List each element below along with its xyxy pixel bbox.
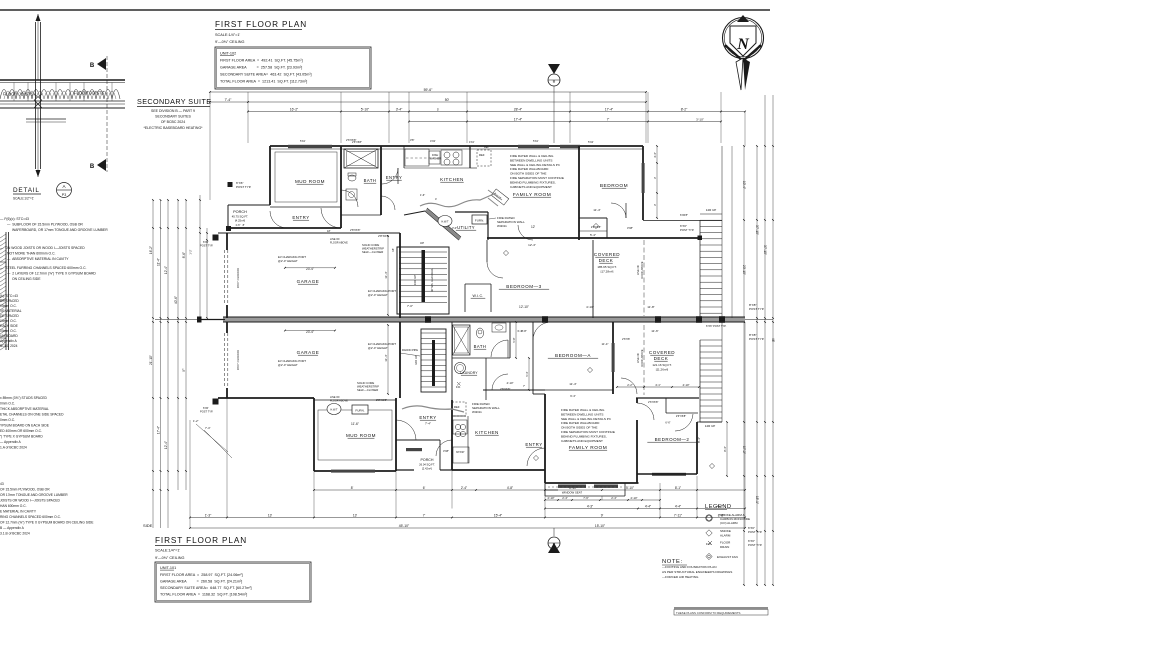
upper garage door dashed (224, 250, 226, 305)
svg-text:6'-6": 6'-6" (665, 421, 670, 425)
svg-text:POST TYP.: POST TYP. (236, 185, 251, 189)
svg-text:16'X7' OH DOOR: 16'X7' OH DOOR (236, 350, 240, 370)
svg-text:5'-4": 5'-4" (525, 371, 529, 376)
svg-text:3'-8": 3'-8" (521, 329, 527, 333)
svg-text:3'X8": 3'X8" (443, 449, 449, 453)
svg-text:JOISTS OR WOOD I—JOISTS SPACED: JOISTS OR WOOD I—JOISTS SPACED (0, 499, 60, 503)
svg-text:@2'-0" HEIGHT: @2'-0" HEIGHT (368, 293, 388, 297)
bedroom2 interior dim chain (726, 422, 728, 476)
svg-text:ED 400mm OR 600mm O.C.: ED 400mm OR 600mm O.C. (0, 429, 42, 433)
svg-text:") TYPE X GYPSUM BOARD: ") TYPE X GYPSUM BOARD (0, 435, 43, 439)
svg-text:3'-4": 3'-4" (396, 107, 403, 111)
svg-text:GARAGE: GARAGE (297, 350, 320, 355)
svg-text:7'-4": 7'-4" (425, 422, 431, 426)
svg-text:6"X6" POST TYP.: 6"X6" POST TYP. (706, 324, 727, 328)
svg-text:FLOOR: FLOOR (720, 541, 731, 545)
svg-text:F.D.: F.D. (456, 385, 461, 389)
svg-text:(CO) ALARM: (CO) ALARM (720, 521, 738, 525)
upper kitchen range circles (444, 152, 450, 158)
svg-text:LAUNDRY: LAUNDRY (460, 371, 478, 375)
svg-text:BEDROOM—3: BEDROOM—3 (506, 284, 541, 289)
upper central stair box (397, 247, 449, 314)
upper unit mudroom left wall (269, 146, 271, 205)
svg-text:PORCH: PORCH (233, 210, 247, 214)
svg-text:6'-4": 6'-4" (570, 394, 576, 398)
svg-text:11'-4": 11'-4" (384, 354, 388, 361)
detail A floor joist hatched band (0, 79, 125, 81)
svg-text:W4D11: W4D11 (497, 224, 507, 228)
svg-text:3'X8": 3'X8" (627, 226, 633, 230)
bottom dimension row A (314, 489, 745, 491)
svg-text:5'X4': 5'X4' (588, 140, 594, 144)
svg-text:FURN.: FURN. (355, 409, 364, 413)
svg-text:UTILITY: UTILITY (457, 225, 475, 230)
svg-text:POST TYP.: POST TYP. (200, 410, 213, 414)
lower family room window seat (545, 489, 558, 491)
svg-text:40'-6": 40'-6" (174, 296, 178, 304)
svg-text:WINDOW SEAT: WINDOW SEAT (562, 491, 582, 495)
svg-text:4'-4": 4'-4" (675, 504, 681, 508)
upper top wall windows (288, 145, 332, 148)
svg-text:SEE WALL & CEILING DETAILS P3: SEE WALL & CEILING DETAILS P3 (561, 417, 611, 421)
svg-text:ETAL CHANNELS ON ONE SIDE SPAC: ETAL CHANNELS ON ONE SIDE SPACED (0, 413, 64, 417)
upper garage outline (218, 232, 400, 234)
svg-text:1.A of BCBC 2024: 1.A of BCBC 2024 (0, 446, 27, 450)
svg-text:15'-10": 15'-10" (595, 524, 606, 528)
svg-text:6'X6': 6'X6' (203, 240, 209, 244)
svg-text:3.1.B of BCBC 2024: 3.1.B of BCBC 2024 (0, 532, 30, 536)
svg-text:15'-4": 15'-4" (494, 513, 503, 517)
svg-text:UNIT-101: UNIT-101 (160, 566, 176, 570)
lower deck bottom dim line (617, 386, 699, 388)
svg-text:8'-4": 8'-4" (697, 437, 701, 443)
svg-text:36" MIN. GUARDRAIL: 36" MIN. GUARDRAIL (431, 267, 434, 292)
upper central stair treads (399, 251, 447, 253)
svg-text:4'-4": 4'-4" (653, 152, 657, 158)
svg-text:COVERED: COVERED (649, 350, 675, 355)
lower garage interior dim (387, 325, 389, 394)
svg-text:9': 9' (601, 513, 604, 517)
svg-text:SECONDARY SUITES: SECONDARY SUITES (155, 115, 191, 119)
upper stairs right (700, 213, 722, 215)
svg-text:KITCHEN: KITCHEN (475, 430, 499, 435)
lower bedroomA walls (532, 322, 534, 394)
upper kitchen-family wall (469, 146, 471, 168)
svg-text:FLOOR JOISTS: FLOOR JOISTS (74, 91, 104, 96)
upper utility diagonal walls (425, 211, 459, 240)
svg-text:0mm O.C.: 0mm O.C. (0, 418, 15, 422)
svg-text:9'": 9'" (182, 368, 186, 372)
lower central stairs (421, 329, 446, 392)
svg-text:(k): STC=43: (k): STC=43 (0, 294, 18, 298)
svg-text:ROOF ABOVE: ROOF ABOVE (640, 349, 644, 366)
svg-text:BETWEEN DWELLING UNITS: BETWEEN DWELLING UNITS (510, 158, 552, 162)
unit-101 area box (155, 562, 311, 602)
lower bedroomA window (612, 343, 615, 372)
upper bath walls (380, 146, 382, 215)
svg-text:UP: UP (420, 241, 424, 245)
svg-text:x 89mm (3⅝") STUDS SPACED: x 89mm (3⅝") STUDS SPACED (0, 396, 48, 400)
svg-text:FURN.: FURN. (475, 219, 484, 223)
svg-text:TOTAL FLOOR AREA = 1213.41: TOTAL FLOOR AREA = 1213.41 SQ.FT. [112.7… (220, 80, 307, 84)
svg-text:DS SPACED: DS SPACED (0, 299, 19, 303)
svg-text:SECONDARY SUITE: SECONDARY SUITE (137, 97, 211, 106)
svg-text:B — Appendix A: B — Appendix A (0, 526, 25, 530)
svg-text:7': 7' (523, 384, 526, 388)
lower bath fixtures (476, 328, 483, 338)
upper furn room walls (455, 211, 488, 213)
upper mudroom walls (340, 146, 342, 228)
svg-text:@2'-0" HEIGHT: @2'-0" HEIGHT (278, 363, 298, 367)
detail A wall x-brace marks (34, 100, 42, 108)
svg-text:1'-6" 8': 1'-6" 8' (235, 223, 245, 227)
svg-text:[17.28m²]: [17.28m²] (601, 270, 614, 274)
approval stamp box (674, 607, 768, 609)
svg-text:16R UP: 16R UP (413, 275, 417, 286)
upper heat run box (491, 189, 509, 205)
svg-text:FLOOR JOISTS: FLOOR JOISTS (3, 92, 33, 97)
svg-text:MUD ROOM: MUD ROOM (295, 179, 325, 184)
svg-text:1'-3": 1'-3" (205, 513, 212, 517)
section marker bottom (553, 528, 555, 536)
detail A section dashed line (106, 56, 108, 172)
svg-text:7'-11": 7'-11" (674, 513, 683, 517)
svg-text:14R UP: 14R UP (705, 424, 716, 428)
lower family room walls (544, 394, 546, 483)
svg-text:5': 5' (437, 107, 440, 111)
svg-text:1'-2": 1'-2" (189, 249, 193, 254)
svg-text:ENTRY: ENTRY (386, 175, 403, 180)
lower bedroomA door arc (533, 322, 551, 340)
svg-text:11'-6": 11'-6" (651, 329, 658, 333)
svg-text:14R UP: 14R UP (706, 208, 717, 212)
lower furnace (352, 405, 368, 414)
svg-text:— SUBFLOOR OF 15.5mm PLYWOOD,: — SUBFLOOR OF 15.5mm PLYWOOD, OSB OR (7, 223, 83, 227)
bottom dimension row E (190, 527, 745, 529)
svg-text:26.04 SQ.FT.: 26.04 SQ.FT. (419, 463, 435, 467)
svg-text:BCBC 2024: BCBC 2024 (0, 344, 18, 348)
svg-text:4'-1": 4'-1" (655, 383, 661, 387)
lower bath walls (451, 322, 453, 400)
legend smoke alarm co symbol (706, 515, 712, 521)
svg-text:BETWEEN DWELLING UNITS: BETWEEN DWELLING UNITS (561, 412, 603, 416)
svg-text:TOTAL FLOOR AREA = 1168.32: TOTAL FLOOR AREA = 1168.32 SQ.FT. [108.5… (160, 593, 247, 597)
svg-text:ENTRY: ENTRY (419, 415, 436, 420)
svg-text:5'-10": 5'-10" (361, 107, 370, 111)
svg-text:W.I.C.: W.I.C. (473, 294, 484, 298)
svg-text:11'-4": 11'-4" (157, 258, 161, 266)
svg-text:GARAGE: GARAGE (297, 279, 320, 284)
lower closet door arc (675, 414, 693, 431)
svg-text:185.95 SQ.FT.: 185.95 SQ.FT. (597, 265, 617, 269)
svg-text:SIDE: SIDE (143, 523, 153, 528)
svg-text:2'8"X6'8": 2'8"X6'8" (378, 234, 389, 238)
lower bedroom2 closet (665, 398, 667, 413)
svg-text:THICK ABSORPTIVE MATERIAL: THICK ABSORPTIVE MATERIAL (0, 407, 49, 411)
bottom dimension row D (190, 517, 745, 519)
svg-text:21'-10": 21'-10" (149, 355, 153, 365)
svg-text:17'-2": 17'-2" (742, 446, 746, 454)
lower roof line dashes (643, 325, 645, 395)
top dimension row 2 (210, 101, 646, 103)
party wall post blocks (425, 316, 431, 323)
upper bath fixtures toilet (348, 175, 356, 181)
svg-text:GARAGE AREA = 260.58: GARAGE AREA = 260.58 SQ.FT. [24.21m²] (160, 580, 242, 584)
svg-text:16R UP: 16R UP (414, 355, 418, 365)
svg-text:YPSUM BOARD ON EACH SIDE: YPSUM BOARD ON EACH SIDE (0, 424, 50, 428)
svg-text:8'-6": 8'-6" (182, 252, 186, 258)
svg-text:VE MATERIAL: VE MATERIAL (0, 309, 22, 313)
sheet top border line (0, 9, 770, 11)
svg-text:OF BCBC 2024: OF BCBC 2024 (161, 120, 185, 124)
svg-text:16'-2": 16'-2" (149, 246, 153, 254)
lower mudroom walls (313, 398, 315, 471)
svg-text:00mm O.C.: 00mm O.C. (0, 319, 17, 323)
upper covered deck walls (592, 240, 594, 318)
svg-text:RADON PIPE: RADON PIPE (402, 348, 418, 352)
svg-text:THESE PLANS CONFORM TO REQUIRE: THESE PLANS CONFORM TO REQUIREMENTS (676, 611, 741, 615)
svg-text:8'-2": 8'-2" (681, 107, 688, 111)
upper entry-kitchen wall (403, 146, 405, 168)
lower hall door arc (492, 374, 508, 390)
svg-text:3'-10": 3'-10" (696, 117, 704, 121)
svg-text:WASHER: WASHER (430, 157, 441, 161)
svg-text:6'X6'8": 6'X6'8" (680, 213, 688, 217)
detail A bubble (57, 183, 72, 198)
bottom extension lines (226, 398, 228, 518)
upper porch post (226, 226, 231, 231)
svg-text:POST TYP.: POST TYP. (200, 244, 213, 248)
svg-text:59'-6": 59'-6" (424, 88, 433, 92)
svg-text:DRAIN: DRAIN (720, 545, 729, 549)
svg-text:17'-4": 17'-4" (605, 107, 614, 111)
lower bedroom2 window (652, 473, 686, 476)
svg-text:12'-4": 12'-4" (164, 266, 168, 274)
top extension lines (247, 92, 249, 143)
svg-text:DECK: DECK (654, 356, 669, 361)
svg-text:[11.26m²]: [11.26m²] (656, 368, 669, 372)
svg-text:2'6"X6'8": 2'6"X6'8" (346, 138, 356, 142)
svg-text:2'6"X6'8": 2'6"X6'8" (676, 414, 686, 418)
upper bath vanity (346, 189, 357, 200)
svg-text:17'-4": 17'-4" (157, 426, 161, 434)
svg-text:A: A (62, 184, 66, 189)
svg-text:SCALE:1/4"=1': SCALE:1/4"=1' (155, 549, 180, 553)
svg-text:OF 12.7mm (⅝") TYPE X GYPSUM B: OF 12.7mm (⅝") TYPE X GYPSUM BOARD ON CE… (0, 521, 94, 525)
upper heat duct wavy line (420, 193, 496, 207)
svg-text:FIRST FLOOR PLAN: FIRST FLOOR PLAN (155, 536, 247, 545)
upper garage interior dim (387, 236, 389, 315)
detail A furring channel line (26, 118, 66, 120)
svg-text:Appendix A: Appendix A (0, 339, 17, 343)
svg-text:SMOKE: SMOKE (720, 529, 731, 533)
svg-text:2'-10": 2'-10" (630, 496, 637, 500)
svg-text:SEE DIVISION B — PART 9: SEE DIVISION B — PART 9 (151, 109, 195, 113)
svg-text:FIRE SEPARATION MUST CONTINUE: FIRE SEPARATION MUST CONTINUE (510, 176, 564, 180)
svg-text:NOT MORE THAN 600mm O.C.: NOT MORE THAN 600mm O.C. (7, 252, 56, 256)
svg-text:REF: REF (479, 153, 485, 157)
upper stair stringer (422, 250, 426, 302)
svg-text:MUD ROOM: MUD ROOM (346, 433, 376, 438)
bedroom interior dim chain (656, 146, 658, 218)
svg-text:13': 13' (268, 513, 273, 517)
svg-text:@2'-0" HEIGHT: @2'-0" HEIGHT (278, 259, 298, 263)
svg-text:17'-4": 17'-4" (514, 117, 523, 121)
svg-text:CABINETS AND EQUIPMENT: CABINETS AND EQUIPMENT (561, 439, 603, 443)
svg-text:28'-4": 28'-4" (514, 107, 523, 111)
svg-text:[4.25m²]: [4.25m²] (235, 219, 245, 223)
svg-text:FIRE SEPARATION MUST CONTINUE: FIRE SEPARATION MUST CONTINUE (561, 430, 615, 434)
svg-text:— Appendix A: — Appendix A (0, 440, 22, 444)
svg-text:H.W.T: H.W.T (330, 408, 338, 412)
svg-text:11'-4": 11'-4" (593, 208, 600, 212)
left edge wall section ticks (0, 261, 6, 263)
svg-text:16'X7' OH DOOR: 16'X7' OH DOOR (236, 268, 240, 288)
lower entry door arc (396, 420, 416, 440)
svg-text:1'-6": 1'-6" (420, 193, 425, 197)
svg-text:4'-10": 4'-10" (682, 383, 689, 387)
upper bedroom window east (642, 163, 645, 193)
svg-text:8'-4": 8'-4" (723, 446, 727, 452)
svg-text:5'X4': 5'X4' (533, 140, 539, 143)
svg-text:15'-1": 15'-1" (755, 496, 759, 504)
svg-text:FIRE RATED WALLBOARD: FIRE RATED WALLBOARD (561, 421, 600, 425)
bottom dimension row C (545, 508, 745, 510)
upper kitchen counter (404, 167, 470, 169)
svg-text:FIRST FLOOR AREA = 492.41 S: FIRST FLOOR AREA = 492.41 SQ.FT. [45.75m… (220, 59, 303, 63)
svg-text:DE SPACED: DE SPACED (0, 314, 19, 318)
svg-text:13': 13' (353, 513, 358, 517)
svg-text:SELF—CLOSER: SELF—CLOSER (357, 388, 378, 392)
svg-text:BEDROOM—2: BEDROOM—2 (655, 437, 690, 442)
lower right stairs (700, 339, 722, 341)
section marker top (553, 82, 555, 143)
upper furnace (472, 215, 487, 224)
lower hwt (327, 404, 341, 415)
svg-text:E MATERIAL IN CAVITY: E MATERIAL IN CAVITY (0, 510, 37, 514)
svg-text:EXHAUST FAN: EXHAUST FAN (717, 555, 738, 559)
svg-text:121.16 SQ.FT.: 121.16 SQ.FT. (652, 363, 672, 367)
svg-text:7': 7' (423, 513, 426, 517)
svg-text:P3: P3 (62, 193, 66, 197)
svg-text:RING CHANNELS SPACED 600mm O.C: RING CHANNELS SPACED 600mm O.C. (0, 515, 61, 519)
svg-text:0mm O.C.: 0mm O.C. (0, 402, 15, 406)
upper family-deck south wall (487, 237, 700, 239)
svg-text:9'—0⅜" CEILING: 9'—0⅜" CEILING (155, 556, 185, 560)
svg-text:— 2 LAYERS OF 12.7mm (⅝") TYP: — 2 LAYERS OF 12.7mm (⅝") TYPE X GYPSUM … (7, 272, 96, 276)
svg-text:37'-10": 37'-10" (755, 225, 759, 235)
right dim ticks (743, 145, 745, 147)
svg-text:ENTRY: ENTRY (292, 215, 309, 220)
top dimension row 4 (409, 121, 721, 123)
legend exhaust fan symbol (706, 553, 712, 559)
svg-text:30"X30": 30"X30" (456, 451, 465, 454)
upper hwt (438, 216, 452, 227)
upper wic walls (464, 284, 466, 312)
svg-text:DETAIL: DETAIL (13, 187, 40, 194)
lower garage outline (226, 322, 228, 333)
svg-text:7'-0": 7'-0" (407, 304, 413, 308)
svg-text:H.W.T: H.W.T (441, 220, 449, 224)
svg-text:LINE OF: LINE OF (636, 265, 640, 276)
svg-text:10'-4": 10'-4" (742, 181, 746, 189)
svg-text:SECONDARY SUITE AREA= 648.77: SECONDARY SUITE AREA= 648.77 SQ.FT. [60.… (160, 586, 252, 590)
svg-text:1'-2": 1'-2" (193, 419, 199, 423)
lower kitchen counter (467, 416, 469, 463)
svg-text:WAFERBOARD, OR 17mm TONGUE AND: WAFERBOARD, OR 17mm TONGUE AND GROOVE LU… (12, 228, 108, 232)
svg-text:FIRST FLOOR AREA = 258.97 S: FIRST FLOOR AREA = 258.97 SQ.FT. [24.06m… (160, 573, 243, 577)
upper bedroom walls (578, 146, 580, 240)
upper deck edge line (643, 220, 722, 222)
lower garage door dashed (224, 333, 226, 388)
left edge wall section hatch band (5, 232, 7, 350)
svg-text:— STEEL FURRING CHANNELS SPAC: — STEEL FURRING CHANNELS SPACED 600mm O.… (0, 266, 87, 270)
svg-text:SECONDARY SUITE AREA= 463.42: SECONDARY SUITE AREA= 463.42 SQ.FT. [43.… (220, 73, 312, 77)
svg-text:ON BOTH SIDES OF THE: ON BOTH SIDES OF THE (561, 426, 597, 430)
svg-text:2'8"X6'8": 2'8"X6'8" (350, 228, 360, 232)
svg-text:2'-2": 2'-2" (627, 383, 633, 387)
svg-text:FIRE RATED WALL & CEILING: FIRE RATED WALL & CEILING (561, 408, 605, 412)
svg-text:8': 8' (351, 486, 354, 490)
svg-text:3': 3' (653, 176, 657, 179)
svg-text:SEE WALL & CEILING DETAILS P3: SEE WALL & CEILING DETAILS P3 (510, 163, 560, 167)
svg-text:9'—0⅜" CEILING: 9'—0⅜" CEILING (215, 40, 245, 44)
svg-text:5'-8": 5'-8" (512, 337, 516, 342)
svg-text:— ABSORPTIVE MATERIAL IN CAVI: — ABSORPTIVE MATERIAL IN CAVITY (7, 257, 69, 261)
svg-text:ENTRY: ENTRY (525, 442, 542, 447)
svg-text:45'-10": 45'-10" (399, 524, 410, 528)
svg-text:37'-10": 37'-10" (763, 245, 767, 255)
top dimension row 59-6 (210, 91, 646, 93)
upper entry door arc2 (321, 208, 341, 228)
svg-text:11'-4": 11'-4" (569, 382, 576, 386)
svg-text:SELF—CLOSER: SELF—CLOSER (362, 250, 383, 254)
svg-text:FIRE RATED WALL & CEILING: FIRE RATED WALL & CEILING (510, 154, 554, 158)
legend smoke alarm symbol (706, 530, 712, 536)
svg-text:REF: REF (484, 146, 489, 149)
svg-text:5'-4": 5'-4" (590, 233, 596, 237)
svg-text:DECK: DECK (599, 258, 614, 263)
lower bedroomA deck door arc (621, 378, 637, 394)
svg-text:B: B (553, 542, 556, 547)
upper bedroom closet (579, 230, 607, 232)
svg-text:5'X4': 5'X4' (300, 140, 306, 143)
upper bedroom3 west wall (486, 240, 488, 262)
svg-text:2'6"X6'8": 2'6"X6'8" (648, 400, 658, 404)
lower heat duct wavy line (402, 406, 464, 412)
svg-text:POST TYP.: POST TYP. (680, 228, 694, 232)
svg-text:UNIT-102: UNIT-102 (220, 52, 236, 56)
left dim ticks (152, 199, 154, 201)
svg-text:11'-6": 11'-6" (351, 422, 359, 426)
svg-text:2'6"X8': 2'6"X8' (622, 337, 630, 341)
upper interior door arcs (341, 190, 358, 207)
lower laundry (455, 363, 466, 374)
svg-text:— ON WOOD JOISTS OR WOOD I—JO: — ON WOOD JOISTS OR WOOD I—JOISTS SPACED (0, 246, 85, 250)
svg-text:3'8": 3'8" (410, 138, 414, 142)
party wall center band (223, 317, 745, 322)
svg-text:7'-4": 7'-4" (205, 426, 211, 430)
svg-text:12'-10": 12'-10" (519, 305, 529, 309)
lower mudroom window (331, 470, 375, 473)
svg-text:DISH: DISH (432, 153, 438, 157)
svg-text:— F(6)(c): STC=43: — F(6)(c): STC=43 (0, 217, 29, 221)
svg-text:BATH: BATH (364, 178, 377, 183)
svg-text:EACH SIDE: EACH SIDE (0, 324, 19, 328)
svg-text:B: B (90, 63, 95, 69)
svg-text:4'-3": 4'-3" (587, 504, 593, 508)
svg-text:—FOOTING AND FOUNDATION PLAN: —FOOTING AND FOUNDATION PLAN (662, 565, 716, 569)
